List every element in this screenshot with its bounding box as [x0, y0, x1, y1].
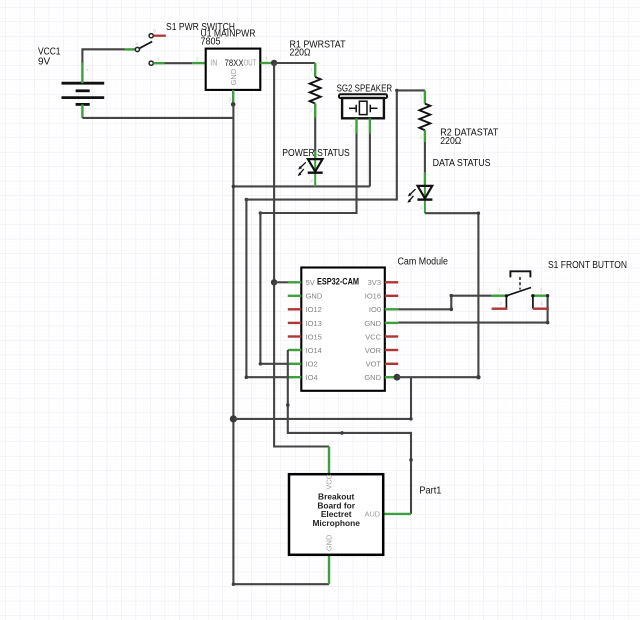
- svg-text:DATA STATUS: DATA STATUS: [433, 158, 491, 169]
- pin VOR leg: [385, 349, 398, 351]
- LED1 POWER STATUS top leg: [314, 151, 316, 159]
- button pin1 leg: [492, 295, 507, 297]
- svg-text:+: +: [350, 123, 353, 128]
- mic board text: [312, 492, 360, 528]
- button dashed actuator: [519, 277, 521, 290]
- regulator U1 7805 body: [206, 49, 261, 90]
- svg-text:1: 1: [420, 94, 423, 99]
- node speaker branch bend: [259, 211, 263, 215]
- wire IO14 to mic AUD: [288, 350, 411, 514]
- svg-text:IO0: IO0: [369, 305, 381, 314]
- wire IO4 vertical: [245, 200, 247, 378]
- pin IO0 leg: [385, 308, 398, 310]
- wire GND branch to speaker right pin: [233, 185, 370, 187]
- wire 5V junction to ESP 5V pin: [274, 281, 288, 283]
- svg-text:2: 2: [196, 56, 199, 61]
- wire R1 to LED1: [314, 118, 316, 152]
- label U1 MAINPWR 7805: [201, 28, 256, 47]
- node 5V junction at ESP32: [271, 279, 277, 285]
- svg-text:S1 FRONT BUTTON: S1 FRONT BUTTON: [548, 260, 627, 271]
- label R2 DATASTAT 220: [440, 127, 498, 147]
- svg-text:IN: IN: [210, 59, 217, 68]
- resistor R2 bottom leg: [424, 130, 426, 142]
- svg-text:2: 2: [499, 301, 502, 306]
- wire AUD green: [383, 513, 411, 515]
- button pin4 link: [532, 296, 534, 309]
- svg-text:VOT: VOT: [366, 360, 382, 369]
- wire R2 branch: [246, 90, 425, 199]
- switch S1 unconnected pin red leg: [153, 35, 165, 37]
- pin IO13 leg: [288, 322, 302, 324]
- pin VCC leg: [385, 335, 398, 337]
- svg-text:ESP32-CAM: ESP32-CAM: [317, 277, 359, 288]
- regulator U1 internal labels: [210, 59, 256, 86]
- pin IO14 leg: [288, 349, 302, 351]
- wire 5V bus to mic VCC corner: [274, 282, 329, 446]
- pin 5V leg: [288, 281, 302, 283]
- wire mic GND horizontal: [233, 583, 329, 585]
- wire switch to regulator IN: [165, 62, 193, 64]
- wire OUT to R1 top: [274, 62, 315, 64]
- wire LED2 cathode to GND: [425, 213, 479, 377]
- svg-text:GND: GND: [325, 535, 334, 551]
- node IO0 bend1: [450, 308, 454, 312]
- node LED2 gnd dot: [476, 375, 480, 379]
- svg-text:Microphone: Microphone: [312, 518, 360, 528]
- LED1 triangle: [308, 159, 323, 171]
- svg-text:2: 2: [420, 134, 423, 139]
- svg-text:220Ω: 220Ω: [440, 136, 461, 147]
- mic breakout board body: [289, 474, 383, 555]
- svg-text:1: 1: [157, 56, 160, 61]
- switch S1 lever: [139, 42, 152, 49]
- battery VCC1: [62, 83, 105, 104]
- svg-text:3: 3: [540, 288, 543, 293]
- LED2 cathode bar: [417, 198, 432, 200]
- svg-text:IO15: IO15: [306, 332, 322, 341]
- label R1 PWRSTAT 220: [290, 39, 346, 58]
- svg-text:IO2: IO2: [306, 360, 318, 369]
- node GND2 bend: [546, 321, 550, 325]
- button pin2 red leg: [492, 308, 508, 310]
- svg-text:1: 1: [265, 56, 268, 61]
- pin IO4 leg: [288, 376, 302, 378]
- button pin3 leg: [531, 295, 547, 297]
- node bend: [409, 417, 412, 420]
- svg-text:IO16: IO16: [365, 292, 381, 301]
- svg-text:IO4: IO4: [306, 373, 318, 382]
- pin number labels: [86, 29, 543, 307]
- svg-text:78XX: 78XX: [225, 58, 245, 69]
- node OUT junction: [271, 60, 277, 66]
- svg-text:4: 4: [540, 301, 543, 306]
- LED1 cathode bar: [308, 171, 323, 173]
- resistor R1 top leg: [314, 63, 316, 77]
- node GND junction under regulator: [231, 102, 236, 107]
- ESP32 module body: [301, 268, 385, 391]
- svg-text:1: 1: [498, 288, 501, 293]
- LED2 pass-through stem: [424, 186, 426, 213]
- regulator OUT pin leg: [260, 62, 274, 64]
- svg-text:GND: GND: [364, 319, 381, 328]
- pin 3V3 leg: [385, 281, 398, 283]
- wire battery+ to switch: [82, 49, 124, 62]
- svg-text:Cam Module: Cam Module: [398, 256, 449, 267]
- speaker SG2 top plate: [339, 94, 387, 98]
- svg-text:5V: 5V: [306, 278, 315, 287]
- svg-text:2: 2: [135, 41, 138, 46]
- resistor R1 PWRSTAT zigzag: [310, 77, 321, 104]
- mic VCC green: [328, 447, 330, 475]
- resistor R1 bottom leg: [314, 104, 316, 118]
- switch S1 common pin circle: [135, 47, 139, 51]
- button pin4 red leg: [533, 308, 549, 310]
- node IO2 bend: [259, 362, 263, 366]
- node button pivot: [505, 294, 508, 297]
- svg-text:AUD: AUD: [365, 510, 380, 519]
- node GND branch bend: [232, 185, 236, 189]
- switch S1 lower throw pin leg: [153, 62, 164, 64]
- node LED2 bend: [477, 212, 480, 215]
- svg-text:2: 2: [310, 178, 313, 183]
- wire GND bus vertical: [232, 105, 234, 585]
- svg-text:220Ω: 220Ω: [290, 48, 311, 59]
- switch S1 PWR SWITCH common pin leg: [125, 48, 136, 50]
- resistor R2 DATASTAT zigzag: [419, 104, 430, 131]
- label VCC1 9V: [38, 47, 61, 68]
- resistor R2 top leg: [424, 90, 426, 103]
- svg-text:VCC: VCC: [365, 332, 381, 341]
- regulator U1 7805 IN pin leg: [192, 62, 205, 64]
- node bend R2: [395, 89, 398, 92]
- wire GND2 to button pin3: [398, 296, 547, 323]
- pin IO2 leg: [288, 363, 302, 365]
- svg-text:+: +: [86, 67, 89, 72]
- svg-text:7805: 7805: [201, 37, 221, 48]
- svg-text:IO13: IO13: [306, 319, 322, 328]
- svg-text:IO12: IO12: [306, 305, 322, 314]
- wire IO2 horizontal: [260, 363, 293, 365]
- wire IO0 to button: [398, 296, 491, 310]
- mic pin labels: [325, 474, 381, 551]
- node bend mic gnd: [232, 583, 235, 586]
- pin IO12 leg: [288, 308, 302, 310]
- svg-text:GND: GND: [229, 68, 238, 85]
- pin IO16 leg: [385, 295, 398, 297]
- battery + pin: [81, 62, 83, 83]
- regulator GND pin leg: [232, 90, 234, 105]
- svg-text:OUT: OUT: [244, 59, 257, 68]
- LED2 DATA STATUS top leg: [424, 173, 426, 186]
- wire IO4 horizontal: [246, 376, 293, 378]
- button pin2 link: [505, 296, 507, 309]
- pin GND2 leg: [385, 322, 398, 324]
- node bend io14 b: [340, 431, 344, 435]
- wire speaker right pin to GND branch: [369, 134, 371, 187]
- pin VOT leg: [385, 363, 398, 365]
- speaker left pin leg: [355, 118, 357, 133]
- node button pin3 outer: [546, 294, 549, 297]
- mic GND green: [328, 555, 330, 584]
- svg-text:2: 2: [420, 205, 423, 210]
- svg-text:IO14: IO14: [306, 346, 322, 355]
- battery - pin: [81, 104, 83, 118]
- node R2 branch bend: [245, 198, 249, 202]
- node bend io14 c: [409, 458, 413, 462]
- LED1 pass-through stem: [314, 159, 316, 186]
- node bend io14 a: [286, 403, 290, 407]
- svg-text:Part1: Part1: [419, 485, 441, 496]
- svg-text:3: 3: [229, 97, 232, 102]
- wire speaker left pin down: [260, 134, 356, 364]
- button lever: [506, 288, 531, 296]
- svg-text:POWER STATUS: POWER STATUS: [282, 148, 350, 159]
- switch S1 unconnected throw pin circle: [149, 34, 153, 38]
- svg-text:3V3: 3V3: [368, 278, 381, 287]
- node IO4 bend: [245, 375, 249, 379]
- pin GND3 leg: [385, 376, 398, 378]
- pin GND left leg: [288, 295, 302, 297]
- speaker SG2 piezo symbol: [349, 101, 378, 114]
- svg-text:3: 3: [153, 29, 156, 34]
- node IO0 bend2: [450, 294, 454, 298]
- svg-text:1: 1: [310, 67, 313, 72]
- svg-text:9V: 9V: [38, 57, 51, 68]
- wire battery- to GND bus: [82, 117, 233, 119]
- LED2 triangle: [418, 186, 433, 198]
- ESP32 right pin labels: [364, 278, 381, 382]
- wire R2 to LED2: [424, 142, 426, 173]
- svg-text:2: 2: [310, 108, 313, 113]
- LED1 arrows: [298, 162, 306, 176]
- speaker SG2 body: [342, 98, 384, 118]
- speaker right pin leg: [369, 118, 371, 133]
- LED2 arrows: [407, 189, 415, 203]
- node GND big junction: [230, 415, 237, 422]
- wire GND3 to LED2 vertical: [397, 376, 478, 378]
- svg-text:SG2 SPEAKER: SG2 SPEAKER: [337, 84, 393, 95]
- svg-text:VCC: VCC: [325, 474, 334, 489]
- pin IO15 leg: [288, 335, 302, 337]
- node button pin3 inner: [531, 294, 534, 297]
- svg-text:VOR: VOR: [365, 346, 382, 355]
- button S1 FRONT BUTTON bracket: [510, 271, 530, 277]
- switch S1 lower throw pin circle: [149, 61, 153, 65]
- ESP32 left pin labels: [306, 278, 323, 382]
- wire GND junction to ESP right GND: [233, 377, 411, 419]
- node 5V bus top / wire OUT down: [273, 63, 275, 282]
- node GND3 junction: [394, 374, 401, 381]
- svg-text:GND: GND: [364, 373, 381, 382]
- svg-text:GND: GND: [306, 292, 323, 301]
